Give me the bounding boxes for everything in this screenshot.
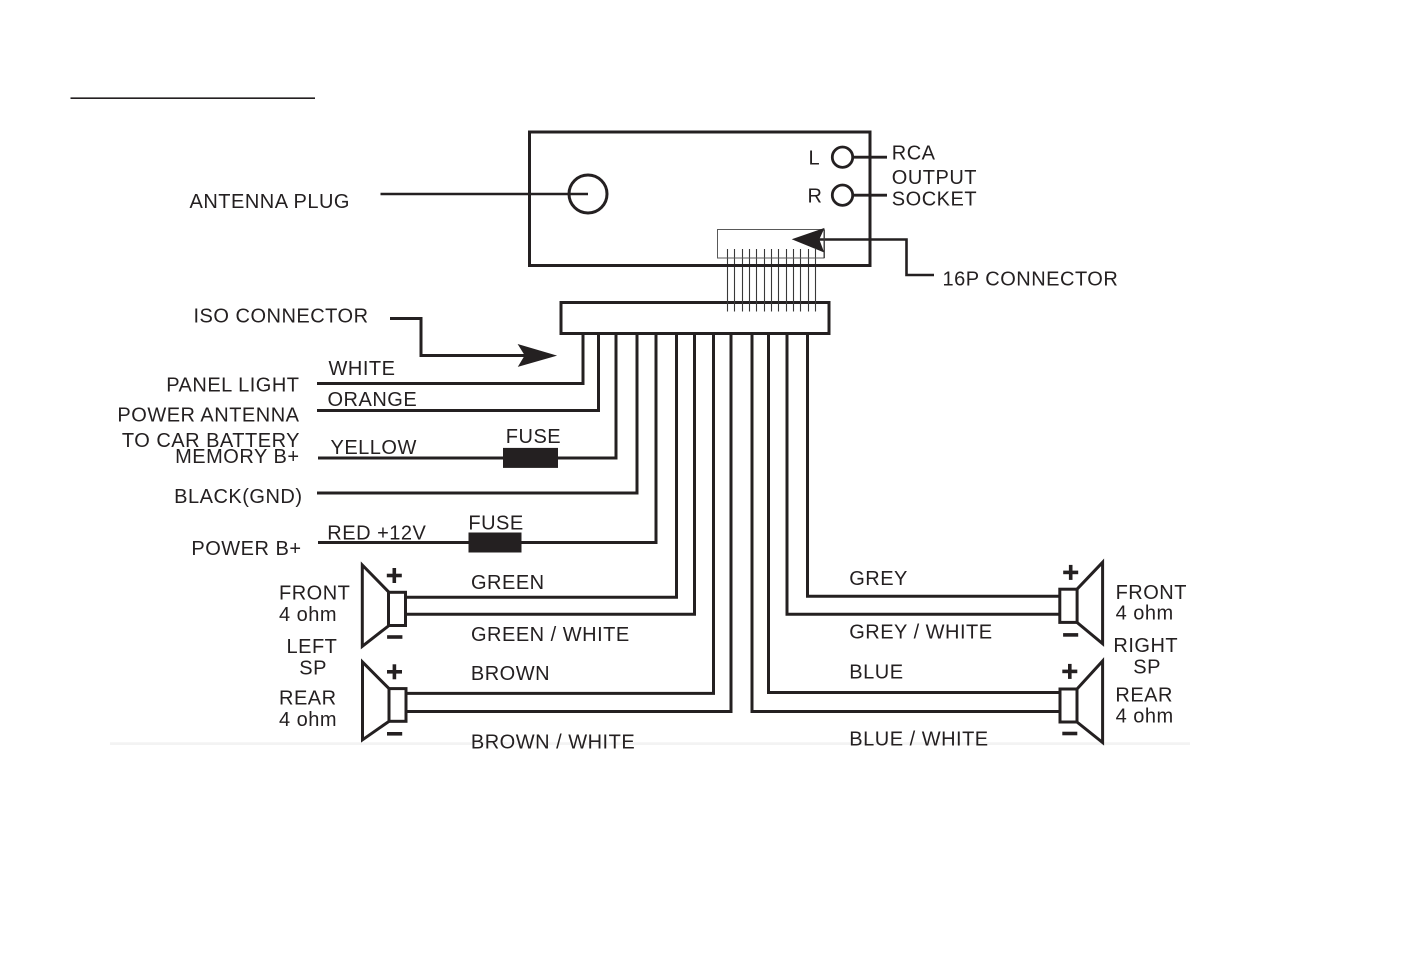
svg-text:RCA: RCA xyxy=(892,143,936,165)
svg-text:R: R xyxy=(808,185,823,207)
svg-text:RED +12V: RED +12V xyxy=(327,523,426,545)
svg-text:BROWN / WHITE: BROWN / WHITE xyxy=(471,731,635,753)
svg-text:MEMORY B+: MEMORY B+ xyxy=(175,446,299,468)
svg-text:FUSE: FUSE xyxy=(506,426,561,448)
svg-text:REAR: REAR xyxy=(1115,685,1173,707)
svg-text:SP: SP xyxy=(1133,656,1161,678)
svg-text:LEFT: LEFT xyxy=(287,636,338,658)
svg-text:ORANGE: ORANGE xyxy=(328,389,418,411)
svg-text:16P CONNECTOR: 16P CONNECTOR xyxy=(943,269,1119,291)
svg-text:4 ohm: 4 ohm xyxy=(1116,706,1174,728)
svg-text:OUTPUT: OUTPUT xyxy=(892,167,977,189)
svg-text:BROWN: BROWN xyxy=(471,663,550,685)
svg-text:FRONT: FRONT xyxy=(1116,582,1187,604)
svg-text:ISO CONNECTOR: ISO CONNECTOR xyxy=(194,306,369,328)
svg-text:L: L xyxy=(809,148,821,170)
svg-text:RIGHT: RIGHT xyxy=(1113,635,1178,657)
svg-text:REAR: REAR xyxy=(279,687,337,709)
svg-text:GREY / WHITE: GREY / WHITE xyxy=(849,622,992,644)
svg-text:4 ohm: 4 ohm xyxy=(279,604,337,626)
svg-text:GREEN: GREEN xyxy=(471,572,545,594)
svg-text:4 ohm: 4 ohm xyxy=(1116,602,1174,624)
svg-text:POWER ANTENNA: POWER ANTENNA xyxy=(117,404,299,426)
svg-text:GREEN / WHITE: GREEN / WHITE xyxy=(471,624,630,646)
svg-text:SP: SP xyxy=(299,657,327,679)
svg-text:FUSE: FUSE xyxy=(468,512,523,534)
svg-text:SOCKET: SOCKET xyxy=(892,189,977,211)
svg-text:YELLOW: YELLOW xyxy=(331,437,417,459)
svg-text:PANEL LIGHT: PANEL LIGHT xyxy=(166,375,299,397)
svg-text:BLACK(GND): BLACK(GND) xyxy=(174,486,302,508)
svg-text:WHITE: WHITE xyxy=(329,358,396,380)
svg-text:GREY: GREY xyxy=(849,568,908,590)
svg-text:ANTENNA PLUG: ANTENNA PLUG xyxy=(190,191,350,213)
svg-text:FRONT: FRONT xyxy=(279,583,350,605)
svg-text:4 ohm: 4 ohm xyxy=(279,709,337,731)
svg-text:BLUE / WHITE: BLUE / WHITE xyxy=(849,728,988,750)
svg-text:BLUE: BLUE xyxy=(849,661,903,683)
svg-text:POWER B+: POWER B+ xyxy=(191,538,301,560)
